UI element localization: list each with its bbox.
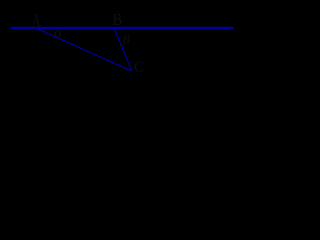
svg-text:β: β [122,32,130,47]
svg-text:B: B [113,10,123,29]
svg-text:C: C [134,59,144,76]
svg-text:A: A [32,11,41,32]
svg-text:α: α [54,25,63,41]
